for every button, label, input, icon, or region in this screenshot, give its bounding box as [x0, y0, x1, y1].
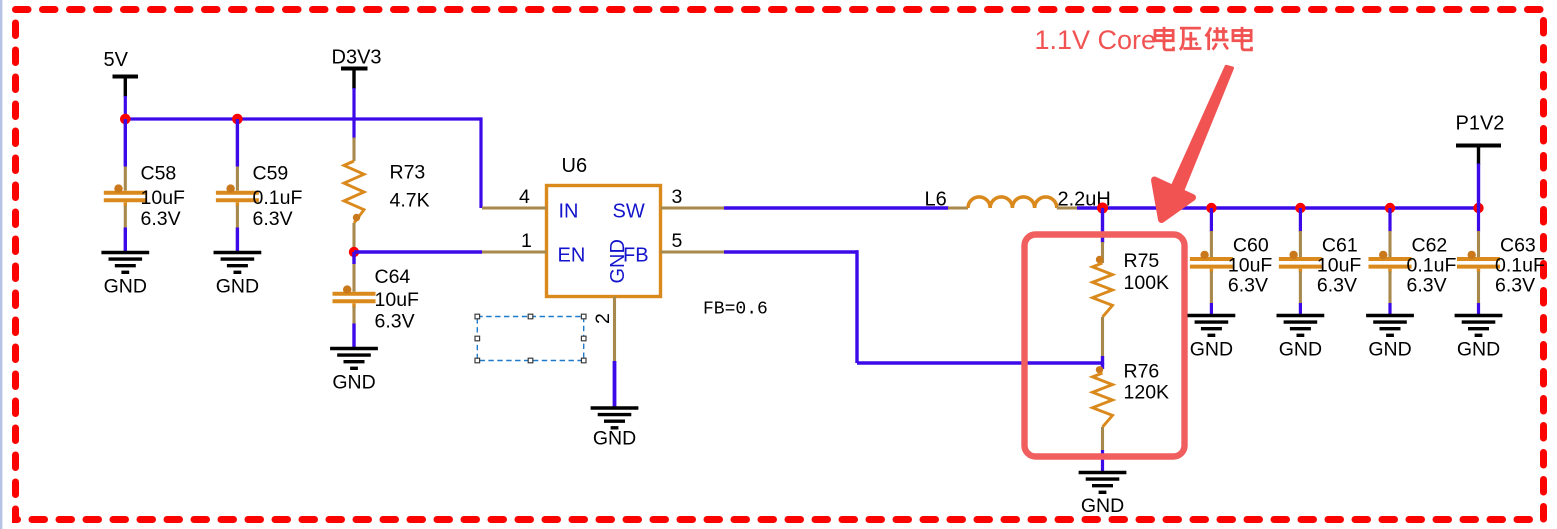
inductor L6 2.2uH	[948, 197, 1078, 208]
ground for C58	[101, 253, 149, 273]
svg-text:GND: GND	[593, 428, 636, 450]
svg-text:5V: 5V	[104, 49, 129, 71]
wire FB net horizontal from pin5	[724, 250, 859, 253]
junction at C60	[1206, 203, 1216, 213]
wire SW to L6	[724, 206, 949, 209]
wire R75 to mid node	[1101, 356, 1104, 365]
svg-text:6.3V: 6.3V	[1317, 275, 1357, 297]
lead R73 bottom	[352, 223, 355, 249]
pin 1 lead (EN)	[482, 250, 547, 253]
svg-text:10uF: 10uF	[1228, 255, 1273, 277]
svg-text:P1V2: P1V2	[1456, 113, 1505, 135]
capacitor C63	[1457, 257, 1500, 261]
wire FB net to divider	[857, 361, 1103, 364]
capacitor C64	[333, 292, 376, 296]
wire C62 lower	[1388, 303, 1391, 316]
wire C60 lower	[1210, 303, 1213, 316]
svg-text:GND: GND	[1279, 339, 1322, 361]
wire 5V to bus	[124, 96, 127, 121]
wire C64 lower	[352, 324, 355, 349]
annotation CJK 电(2)	[1233, 27, 1252, 50]
resistor R73 4.7K	[344, 161, 364, 223]
wire C58 lower	[124, 228, 127, 253]
power symbol P1V2	[1456, 113, 1505, 165]
svg-text:0.1uF: 0.1uF	[253, 187, 303, 209]
svg-text:100K: 100K	[1124, 272, 1170, 294]
svg-text:C59: C59	[253, 163, 289, 185]
svg-text:6.3V: 6.3V	[1495, 275, 1535, 297]
wire C63 lower	[1477, 303, 1480, 316]
pin 3 lead (SW)	[661, 206, 725, 209]
annotation CJK 电	[1155, 27, 1174, 50]
junction node R73-C64-EN	[349, 247, 359, 257]
svg-text:R73: R73	[390, 162, 426, 184]
lead R76 bottom	[1101, 427, 1104, 451]
junction at C58	[120, 114, 131, 125]
svg-text:6.3V: 6.3V	[253, 208, 293, 230]
svg-text:GND: GND	[104, 276, 147, 298]
wire C63 upper	[1477, 208, 1480, 232]
ground for C60	[1188, 316, 1236, 336]
junction after L6	[1097, 203, 1108, 214]
red highlight box around divider	[1025, 235, 1185, 457]
svg-text:6.3V: 6.3V	[375, 311, 415, 333]
wire P1V2 to bus	[1477, 164, 1480, 209]
lead R75 bottom	[1101, 317, 1104, 357]
annotation CJK 供	[1205, 27, 1228, 50]
ground for U6 pin 2	[591, 408, 639, 428]
wire C61 upper	[1299, 208, 1302, 232]
capacitor C61	[1279, 257, 1322, 261]
wire FB net vertical	[855, 250, 858, 363]
power symbol D3V3	[332, 47, 382, 90]
svg-text:C63: C63	[1500, 235, 1536, 257]
wire C59 upper	[236, 119, 239, 167]
svg-text:C61: C61	[1322, 235, 1358, 257]
svg-text:120K: 120K	[1124, 382, 1170, 404]
junction at C61	[1295, 203, 1305, 213]
capacitor C60	[1190, 257, 1233, 261]
junction at C63	[1473, 203, 1483, 213]
wire EN net	[354, 250, 482, 253]
svg-text:SW: SW	[613, 201, 645, 223]
pin 2 lead (GND)	[613, 297, 616, 363]
svg-text:GND: GND	[1190, 339, 1233, 361]
lead C59 bottom	[236, 202, 239, 206]
svg-text:FB=0.6: FB=0.6	[703, 300, 768, 320]
svg-text:4: 4	[519, 186, 530, 208]
svg-text:5: 5	[672, 230, 683, 252]
lead C64 bottom	[352, 303, 355, 307]
svg-text:GND: GND	[1457, 339, 1500, 361]
svg-text:C60: C60	[1233, 235, 1269, 257]
svg-text:GND: GND	[1081, 495, 1124, 517]
wire L6 to junction	[1077, 206, 1103, 209]
lead R75 top	[1101, 242, 1104, 263]
lead C58 top	[124, 167, 127, 191]
junction at C59	[232, 114, 243, 125]
lead C62 top	[1388, 231, 1391, 257]
svg-text:6.3V: 6.3V	[141, 208, 181, 230]
svg-text:GND: GND	[607, 239, 629, 283]
wire D3V3 to bus	[352, 88, 355, 121]
wire 5V bus	[125, 117, 481, 120]
svg-text:1: 1	[521, 230, 532, 252]
capacitor C58	[104, 191, 147, 195]
selection marquee box	[475, 314, 586, 363]
svg-text:6.3V: 6.3V	[1407, 275, 1447, 297]
svg-text:D3V3: D3V3	[332, 47, 382, 69]
lead C61 top	[1299, 231, 1302, 257]
wire bus to R73	[352, 117, 355, 138]
svg-text:10uF: 10uF	[1317, 255, 1362, 277]
svg-text:10uF: 10uF	[375, 289, 420, 311]
lead C60 bottom	[1210, 269, 1213, 273]
svg-text:GND: GND	[216, 276, 259, 298]
canvas edge line	[0, 0, 2, 529]
wire C60 upper	[1210, 208, 1213, 232]
svg-text:R76: R76	[1124, 361, 1160, 383]
lead C63 bottom	[1477, 269, 1480, 273]
svg-text:C62: C62	[1412, 235, 1448, 257]
wire C58 upper	[124, 119, 127, 167]
svg-text:EN: EN	[558, 245, 586, 267]
svg-text:C64: C64	[375, 266, 411, 288]
wire C59 lower	[236, 228, 239, 253]
svg-text:3: 3	[672, 186, 683, 208]
lead C63 top	[1477, 231, 1480, 257]
lead C58 bottom	[124, 202, 127, 206]
power symbol 5V	[104, 49, 139, 97]
svg-text:R75: R75	[1124, 250, 1160, 272]
svg-text:0.1uF: 0.1uF	[1495, 255, 1545, 277]
svg-text:10uF: 10uF	[141, 187, 186, 209]
resistor R76 120K	[1093, 373, 1113, 427]
capacitor C59	[216, 191, 259, 195]
wire bus down to pin4	[479, 117, 482, 208]
wire mid node to R76	[1101, 363, 1104, 369]
wire R76 to ground	[1101, 450, 1104, 473]
lead C61 bottom	[1299, 269, 1302, 273]
svg-text:2: 2	[592, 313, 614, 324]
lead C62 bottom	[1388, 269, 1391, 273]
svg-text:6.3V: 6.3V	[1228, 275, 1268, 297]
lead R73 top	[352, 138, 355, 162]
wire P1V2 bus	[1103, 206, 1479, 209]
ground for R76	[1079, 473, 1127, 493]
wire C61 lower	[1299, 303, 1302, 316]
R73 pin1 dot	[353, 214, 360, 221]
svg-text:1.1V Core: 1.1V Core	[1035, 25, 1157, 55]
svg-text:0.1uF: 0.1uF	[1407, 255, 1457, 277]
svg-text:L6: L6	[925, 189, 947, 211]
svg-text:U6: U6	[562, 155, 588, 177]
ground for C59	[214, 253, 262, 273]
svg-text:GND: GND	[332, 372, 375, 394]
ground for C63	[1455, 316, 1503, 336]
junction at C62	[1385, 203, 1395, 213]
annotation arrow	[1155, 67, 1233, 220]
wire pin2 to ground	[613, 361, 617, 408]
capacitor C62	[1369, 257, 1412, 261]
svg-text:4.7K: 4.7K	[390, 190, 430, 212]
annotation CJK 压	[1180, 28, 1202, 50]
R76 pin1 dot	[1096, 366, 1103, 373]
wire C62 upper	[1388, 208, 1391, 232]
ground for C62	[1366, 316, 1414, 336]
lead C60 top	[1210, 231, 1213, 257]
op-amp / regulator U6 body	[547, 186, 661, 297]
lead C59 top	[236, 167, 239, 191]
R75 pin1 dot	[1096, 256, 1103, 263]
svg-text:C58: C58	[141, 163, 177, 185]
lead C64 top	[352, 264, 355, 292]
wire junction to R75	[1101, 208, 1104, 243]
wire C64 upper	[352, 252, 355, 264]
resistor R75 100K	[1093, 263, 1113, 317]
ground for C64	[330, 349, 378, 369]
svg-text:GND: GND	[1368, 339, 1411, 361]
pin 4 lead (IN)	[482, 206, 547, 209]
ground for C61	[1277, 316, 1325, 336]
pin 5 lead (FB)	[661, 250, 725, 253]
svg-text:IN: IN	[559, 201, 579, 223]
